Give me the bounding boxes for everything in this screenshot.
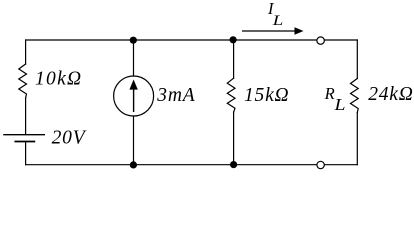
wire top to R2 — [233, 40, 235, 78]
battery V1 long plate — [4, 134, 44, 136]
wire right vertical above RL — [356, 40, 358, 79]
terminal open circle top — [317, 37, 324, 44]
wire current source to bottom — [133, 116, 135, 165]
svg-text:3mA: 3mA — [156, 85, 195, 106]
node junction dot top R2 — [230, 36, 237, 43]
wire top-left horizontal (node A run) — [26, 39, 317, 41]
svg-text:10kΩ: 10kΩ — [35, 69, 82, 90]
wire left vertical above R1 — [25, 40, 27, 64]
svg-text:L: L — [272, 13, 284, 29]
svg-text:L: L — [333, 95, 345, 114]
terminal open circle bottom — [317, 161, 324, 168]
current source I1 circle — [114, 76, 154, 116]
label IL — [267, 0, 283, 29]
wire bottom-right horizontal (terminal to corner) — [325, 164, 357, 166]
resistor R2 15kΩ zigzag — [227, 78, 235, 112]
wire R1 to battery — [25, 98, 27, 134]
resistor R1 10kΩ zigzag — [19, 64, 27, 98]
wire RL to bottom — [356, 113, 358, 165]
svg-text:24kΩ: 24kΩ — [368, 84, 413, 105]
svg-text:20V: 20V — [52, 127, 87, 148]
wire bottom-left horizontal (node B run) — [26, 164, 317, 166]
wire top-right horizontal (terminal to corner) — [325, 39, 357, 41]
battery V1 short plate — [15, 141, 34, 143]
wire battery to bottom — [25, 142, 27, 165]
label RL designator — [324, 84, 346, 114]
wire R2 to bottom — [233, 112, 235, 165]
load current IL arrow — [242, 27, 304, 35]
svg-text:R: R — [324, 84, 335, 103]
current source I1 arrow — [129, 80, 137, 113]
node junction dot bottom R2 — [230, 161, 237, 168]
wire node A to current source — [133, 40, 135, 76]
resistor RL 24kΩ zigzag — [351, 79, 359, 113]
svg-text:15kΩ: 15kΩ — [244, 85, 289, 106]
node junction dot bottom current source — [130, 161, 137, 168]
node junction dot top current source — [130, 37, 137, 44]
